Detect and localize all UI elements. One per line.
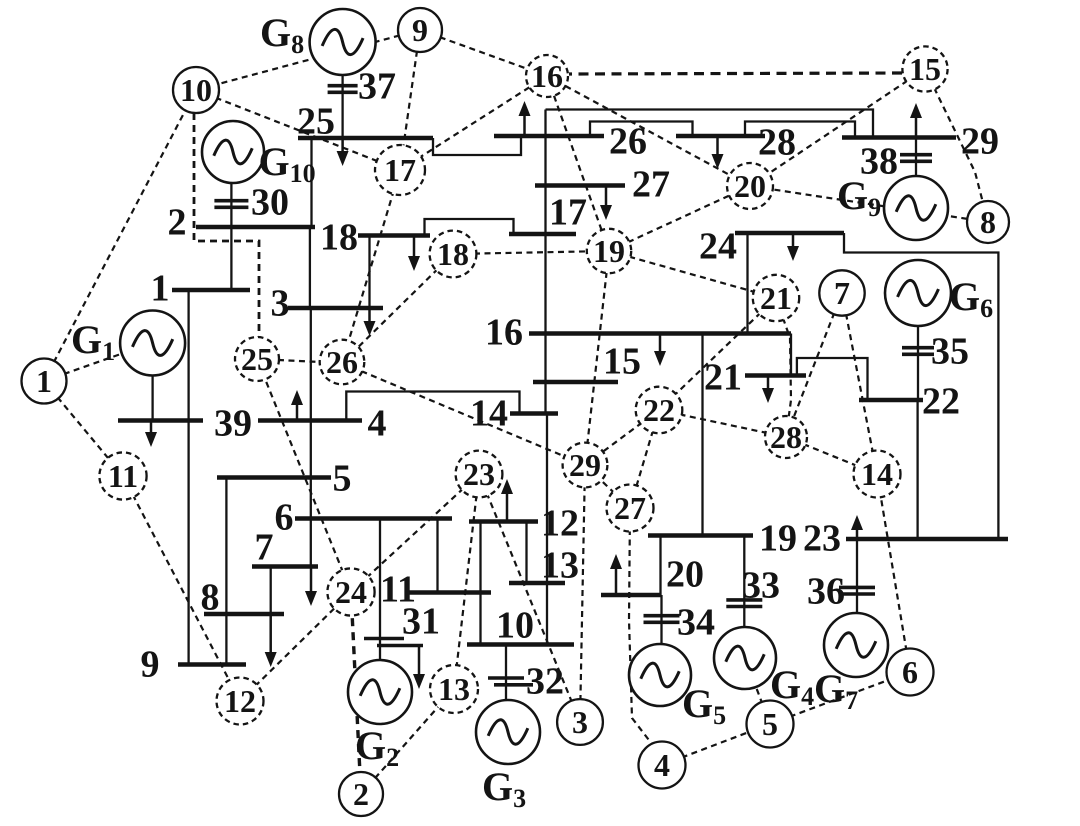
svg-text:8: 8 bbox=[980, 204, 996, 240]
svg-text:21: 21 bbox=[704, 357, 742, 399]
svg-text:39: 39 bbox=[214, 403, 252, 445]
svg-text:24: 24 bbox=[335, 574, 367, 610]
svg-text:7: 7 bbox=[255, 527, 274, 569]
svg-text:13: 13 bbox=[438, 671, 470, 707]
svg-text:1: 1 bbox=[36, 363, 52, 399]
svg-text:1: 1 bbox=[151, 268, 170, 310]
svg-text:36: 36 bbox=[807, 571, 845, 613]
svg-text:17: 17 bbox=[549, 192, 587, 234]
svg-text:4: 4 bbox=[368, 403, 387, 445]
svg-text:19: 19 bbox=[593, 233, 625, 269]
svg-text:5: 5 bbox=[762, 706, 778, 742]
svg-text:14: 14 bbox=[861, 456, 893, 492]
svg-text:9: 9 bbox=[141, 644, 160, 686]
svg-text:26: 26 bbox=[609, 121, 647, 163]
svg-text:2: 2 bbox=[168, 202, 187, 244]
svg-text:19: 19 bbox=[759, 518, 797, 560]
svg-text:18: 18 bbox=[437, 236, 469, 272]
svg-text:16: 16 bbox=[485, 312, 523, 354]
svg-text:20: 20 bbox=[734, 168, 766, 204]
svg-text:15: 15 bbox=[909, 51, 941, 87]
svg-text:21: 21 bbox=[760, 280, 792, 316]
svg-text:29: 29 bbox=[569, 447, 601, 483]
svg-text:20: 20 bbox=[666, 554, 704, 596]
svg-text:10: 10 bbox=[180, 72, 212, 108]
svg-text:34: 34 bbox=[677, 602, 715, 644]
svg-text:17: 17 bbox=[384, 152, 416, 188]
svg-text:23: 23 bbox=[463, 456, 495, 492]
svg-text:22: 22 bbox=[922, 381, 960, 423]
svg-text:22: 22 bbox=[643, 392, 675, 428]
svg-text:18: 18 bbox=[320, 217, 358, 259]
svg-text:6: 6 bbox=[275, 497, 294, 539]
svg-text:23: 23 bbox=[803, 518, 841, 560]
svg-text:25: 25 bbox=[297, 101, 335, 143]
svg-text:3: 3 bbox=[572, 704, 588, 740]
svg-text:7: 7 bbox=[834, 275, 850, 311]
svg-text:2: 2 bbox=[353, 776, 369, 812]
svg-text:4: 4 bbox=[654, 747, 670, 783]
svg-text:27: 27 bbox=[614, 490, 646, 526]
svg-text:26: 26 bbox=[326, 344, 358, 380]
svg-text:37: 37 bbox=[358, 66, 396, 108]
svg-text:25: 25 bbox=[241, 341, 273, 377]
svg-text:14: 14 bbox=[470, 393, 508, 435]
svg-text:31: 31 bbox=[402, 601, 440, 643]
svg-text:28: 28 bbox=[758, 122, 796, 164]
svg-text:29: 29 bbox=[961, 121, 999, 163]
svg-text:9: 9 bbox=[412, 12, 428, 48]
svg-text:5: 5 bbox=[333, 458, 352, 500]
svg-text:6: 6 bbox=[902, 654, 918, 690]
svg-text:12: 12 bbox=[224, 683, 256, 719]
svg-text:33: 33 bbox=[742, 565, 780, 607]
svg-text:15: 15 bbox=[603, 341, 641, 383]
svg-text:32: 32 bbox=[526, 661, 564, 703]
svg-text:12: 12 bbox=[541, 503, 579, 545]
svg-text:30: 30 bbox=[251, 182, 289, 224]
svg-text:35: 35 bbox=[931, 331, 969, 373]
svg-text:13: 13 bbox=[541, 545, 579, 587]
svg-text:3: 3 bbox=[271, 283, 290, 325]
svg-text:27: 27 bbox=[632, 164, 670, 206]
svg-text:16: 16 bbox=[531, 58, 563, 94]
svg-text:24: 24 bbox=[699, 226, 737, 268]
svg-text:28: 28 bbox=[770, 419, 802, 455]
svg-text:8: 8 bbox=[201, 577, 220, 619]
svg-text:11: 11 bbox=[108, 458, 138, 494]
svg-text:10: 10 bbox=[496, 605, 534, 647]
